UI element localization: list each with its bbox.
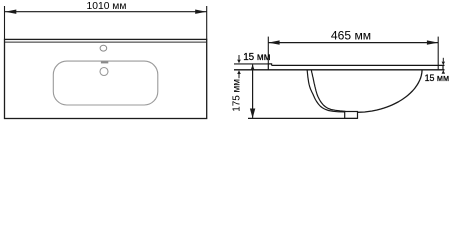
extension line right (1010) xyxy=(206,6,208,39)
bowl silhouette arc xyxy=(357,70,422,112)
overflow slot xyxy=(101,61,108,63)
svg-text:1010 мм: 1010 мм xyxy=(87,1,127,12)
mini arrow up (15мм right) xyxy=(442,70,445,74)
mini arrow up (15мм left) xyxy=(237,70,241,78)
slab rear lip xyxy=(268,64,271,70)
bowl inner wall (side view) xyxy=(311,71,345,112)
dimension line 175 xyxy=(250,64,255,118)
svg-text:15 мм: 15 мм xyxy=(243,52,271,63)
mini arrow down (15мм left) xyxy=(237,55,241,63)
faucet hole xyxy=(100,45,107,51)
bowl outer wall (side view) xyxy=(307,71,344,112)
dimension line 465 xyxy=(268,40,438,44)
countertop front edge line xyxy=(5,41,207,43)
extension line right (465) xyxy=(437,37,439,70)
mini arrow down (15мм right) xyxy=(442,58,445,66)
drain box xyxy=(345,112,358,119)
slab top surface xyxy=(272,64,445,66)
datum line bowl bottom xyxy=(248,117,358,119)
extension line left (1010) xyxy=(4,6,6,39)
slab bottom surface xyxy=(234,69,445,71)
svg-text:175 мм: 175 мм xyxy=(232,79,243,112)
svg-text:465 мм: 465 мм xyxy=(331,29,371,43)
basin bowl (top view) xyxy=(53,61,158,105)
extension line 15мм left top xyxy=(234,63,268,65)
countertop outline (top view) xyxy=(5,39,207,118)
dimension line 1010 xyxy=(5,10,207,14)
overflow hole xyxy=(100,68,108,76)
svg-text:15 мм: 15 мм xyxy=(425,73,450,83)
extension line left (465) xyxy=(267,37,269,64)
slab front edge xyxy=(442,65,444,69)
basin slab (side view) xyxy=(234,64,445,70)
